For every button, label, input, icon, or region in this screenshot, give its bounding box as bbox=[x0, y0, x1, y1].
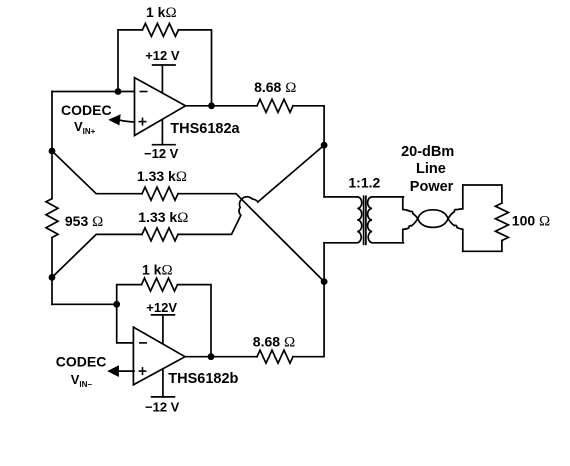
svg-text:CODEC: CODEC bbox=[56, 353, 107, 369]
power stub +12V bottom op-amp bbox=[162, 315, 164, 345]
svg-text:1.33 kΩ: 1.33 kΩ bbox=[138, 209, 188, 226]
junction node A left rail top bbox=[49, 148, 56, 155]
wire output top op-amp bbox=[186, 105, 258, 107]
svg-text:20-dBm: 20-dBm bbox=[401, 144, 454, 160]
power stub +12V top op-amp bbox=[161, 65, 163, 95]
power stub -12V top op-amp bbox=[161, 118, 163, 145]
junction node feedback bottom op-amp bbox=[113, 301, 120, 308]
plus sign bottom op-amp bbox=[139, 370, 147, 372]
resistor R 1 kOhm bottom feedback bbox=[142, 278, 178, 291]
wire top output to right bus bbox=[293, 106, 324, 197]
plus sign top op-amp bbox=[139, 121, 147, 123]
load loop wires bbox=[463, 185, 502, 203]
resistor R 1 kOhm top feedback bbox=[142, 23, 178, 36]
svg-text:100 Ω: 100 Ω bbox=[512, 212, 550, 229]
wire output bottom op-amp bbox=[185, 356, 257, 358]
svg-text:1 kΩ: 1 kΩ bbox=[146, 4, 177, 21]
wire left rail bbox=[51, 92, 53, 199]
svg-text:−12 V: −12 V bbox=[144, 146, 179, 161]
op-amp U2 THS6182b triangle bbox=[133, 327, 185, 385]
minus sign top op-amp bbox=[139, 92, 148, 376]
svg-text:Power: Power bbox=[410, 179, 454, 195]
junction node right bus top bbox=[321, 142, 328, 149]
resistor R 1.33 kOhm top bbox=[142, 187, 178, 200]
wire bottom output to right bus bbox=[293, 243, 324, 357]
svg-text:THS6182a: THS6182a bbox=[170, 121, 240, 137]
arrow to CODEC VIN+ top bbox=[119, 120, 135, 122]
resistor R 100 Ohm bbox=[495, 203, 508, 240]
resistor R 8.68 Ohm top bbox=[257, 99, 293, 112]
wire twisted pair left bottom bbox=[403, 219, 418, 243]
junction node B left rail bottom bbox=[49, 274, 56, 281]
resistor R 1.33 kOhm bottom bbox=[142, 228, 178, 241]
arrow to CODEC VIN- bottom bbox=[118, 370, 134, 372]
junction node output top op-amp bbox=[208, 102, 215, 109]
wire twisted pair right top bbox=[448, 185, 463, 219]
power stub -12V bottom op-amp bbox=[162, 368, 164, 397]
arrowhead CODEC VIN- bottom bbox=[107, 365, 119, 377]
svg-text:8.68 Ω: 8.68 Ω bbox=[253, 334, 295, 351]
transformer T1 secondary winding bbox=[368, 197, 404, 243]
wire minus input top op-amp bbox=[52, 91, 135, 93]
arrowhead CODEC VIN+ top bbox=[108, 114, 121, 125]
wire descending diagonal top 1.33k to bottom bus node bbox=[178, 194, 324, 282]
svg-text:1:1.2: 1:1.2 bbox=[348, 175, 380, 191]
svg-text:+12V: +12V bbox=[146, 300, 177, 315]
resistor R 8.68 Ohm bottom bbox=[257, 350, 293, 363]
svg-text:+12 V: +12 V bbox=[145, 48, 180, 63]
wire minus input bottom op-amp bbox=[117, 304, 134, 343]
transformer T1 core bbox=[363, 196, 365, 244]
svg-text:8.68 Ω: 8.68 Ω bbox=[254, 79, 296, 96]
op-amp U1 THS6182a triangle bbox=[135, 78, 186, 136]
twisted pair centre loop bbox=[418, 210, 448, 228]
svg-text:−12 V: −12 V bbox=[145, 400, 180, 415]
wire twisted pair left top bbox=[403, 197, 418, 219]
wire diagonal from node B to bottom 1.33k bbox=[52, 234, 142, 277]
svg-text:THS6182b: THS6182b bbox=[168, 371, 238, 387]
wire diagonal from node A to top 1.33k bbox=[52, 151, 142, 194]
junction node minus input top op-amp bbox=[115, 88, 122, 95]
minus sign bottom op-amp bbox=[139, 342, 147, 344]
wire twisted pair right bottom bbox=[448, 219, 463, 252]
wire feedback loop top op-amp bbox=[118, 30, 142, 92]
wire ascending diagonal bottom 1.33k to top bus node with hop bbox=[178, 145, 324, 234]
svg-text:Line: Line bbox=[416, 161, 446, 177]
wire feedback loop bottom op-amp bbox=[117, 285, 142, 305]
wire left rail to bottom feedback node bbox=[52, 303, 117, 305]
junction node right bus bottom bbox=[321, 278, 328, 285]
svg-text:1 kΩ: 1 kΩ bbox=[142, 262, 173, 279]
svg-text:CODEC: CODEC bbox=[61, 102, 112, 118]
svg-text:1.33 kΩ: 1.33 kΩ bbox=[137, 168, 187, 185]
transformer T1 primary winding bbox=[324, 197, 362, 243]
junction node output bottom op-amp bbox=[208, 353, 215, 360]
resistor R 953 Ohm bbox=[46, 199, 58, 238]
svg-text:953 Ω: 953 Ω bbox=[65, 213, 103, 230]
